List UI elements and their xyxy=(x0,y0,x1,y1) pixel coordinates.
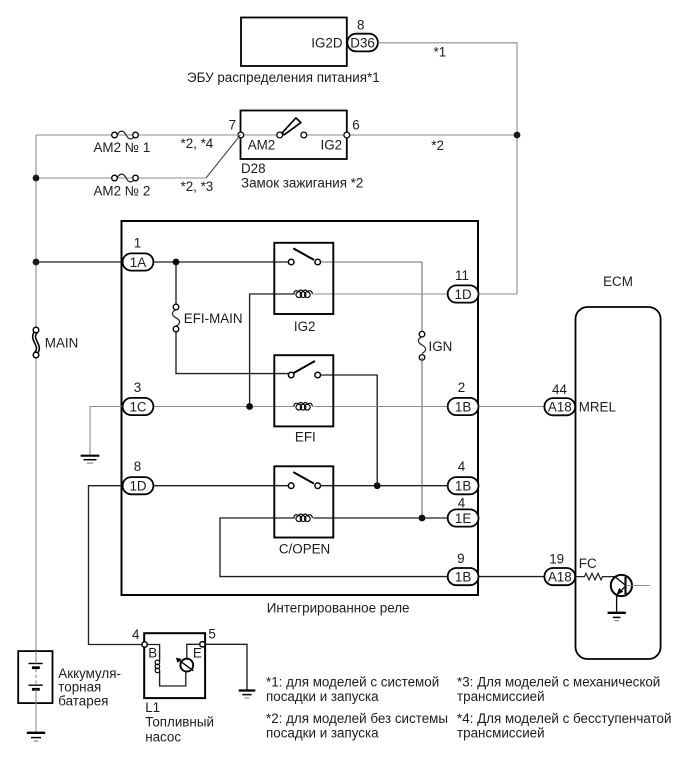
wire C/OPEN coil to 1E xyxy=(313,517,447,519)
svg-text:C/OPEN: C/OPEN xyxy=(279,542,330,557)
wire pin7 to AM2 contact xyxy=(241,134,280,136)
svg-text:*1: для моделей с системой: *1: для моделей с системой xyxy=(266,675,439,690)
relay EFI coil xyxy=(294,403,313,411)
svg-text:ECM: ECM xyxy=(603,274,633,289)
wire pin6 to right column xyxy=(347,134,517,136)
svg-text:MAIN: MAIN xyxy=(45,336,78,351)
relay C/OPEN blade xyxy=(293,472,314,484)
wire IG2 contact out to IGN branch xyxy=(320,262,422,334)
junction AM2 No2 xyxy=(33,175,40,182)
svg-text:1: 1 xyxy=(134,236,141,251)
wire 1D(11) to right column xyxy=(479,293,518,295)
svg-text:*2, *3: *2, *3 xyxy=(181,179,214,194)
svg-text:AM2: AM2 xyxy=(248,137,276,152)
ground (transistor emitter) xyxy=(608,613,626,621)
relay EFI blade xyxy=(293,361,315,373)
svg-text:АМ2 № 2: АМ2 № 2 xyxy=(94,183,151,198)
svg-text:11: 11 xyxy=(455,268,469,283)
svg-text:IG2: IG2 xyxy=(321,137,343,152)
relay C/OPEN box xyxy=(274,466,333,537)
wire AM2 No1 row xyxy=(36,134,241,136)
svg-text:A18: A18 xyxy=(548,569,572,584)
junction 1A / EFI-MAIN xyxy=(173,259,180,266)
svg-text:*2: для моделей без системы: *2: для моделей без системы xyxy=(266,711,448,726)
left main vertical wire xyxy=(35,135,37,330)
svg-text:6: 6 xyxy=(352,118,359,133)
svg-text:1D: 1D xyxy=(455,287,472,302)
relay IG2 coil xyxy=(294,290,313,298)
fuse IGN xyxy=(418,331,425,360)
wire AM2 No2 row xyxy=(36,177,206,179)
svg-text:*2: *2 xyxy=(431,138,444,153)
svg-text:Интегрированное реле: Интегрированное реле xyxy=(267,600,410,615)
wire 1D(8) to fuel pump xyxy=(89,486,143,645)
resistor FC xyxy=(576,573,615,579)
terminal pin 5 (E) xyxy=(200,642,205,647)
svg-text:IG2: IG2 xyxy=(294,319,316,334)
wire 1D(8) row to C/OPEN contact xyxy=(154,485,289,487)
wire EFI coil to 1B(2) xyxy=(313,406,447,408)
svg-text:1A: 1A xyxy=(130,255,146,270)
svg-text:E: E xyxy=(193,645,202,660)
connector D36 xyxy=(347,34,378,52)
ECM box xyxy=(576,307,661,659)
svg-text:АМ2 № 1: АМ2 № 1 xyxy=(94,140,151,155)
svg-text:*4: Для моделей с бесступенчат: *4: Для моделей с бесступенчатой xyxy=(457,711,671,726)
fuse AM2 No 2 xyxy=(112,174,139,182)
svg-text:D36: D36 xyxy=(350,35,375,50)
wire 1A row xyxy=(36,261,289,263)
svg-text:B: B xyxy=(148,645,157,660)
svg-text:19: 19 xyxy=(549,552,564,567)
integrated relay outer box xyxy=(122,221,479,595)
svg-text:батарея: батарея xyxy=(58,693,108,708)
svg-text:1C: 1C xyxy=(129,399,146,414)
wire 1B(9) to ECM FC xyxy=(479,576,545,578)
svg-text:8: 8 xyxy=(134,459,141,474)
wire EFI switch output down xyxy=(320,375,377,486)
ECU power distribution module box xyxy=(241,18,347,67)
pump coil L xyxy=(155,660,160,673)
relay EFI box xyxy=(274,355,333,426)
svg-text:4: 4 xyxy=(458,496,466,511)
svg-text:1B: 1B xyxy=(455,569,471,584)
svg-text:*1: *1 xyxy=(434,45,447,60)
terminal pin 6 xyxy=(344,132,350,138)
ignition switch box D28 xyxy=(241,111,347,160)
svg-text:3: 3 xyxy=(134,380,141,395)
svg-text:2: 2 xyxy=(458,380,465,395)
wire pin 5 to ground xyxy=(205,644,247,690)
svg-text:FC: FC xyxy=(579,556,597,571)
junction EFI output on 1B(4) row xyxy=(374,482,381,489)
pump motor symbol xyxy=(176,658,193,672)
svg-text:посадки и запуска: посадки и запуска xyxy=(266,689,379,704)
wire IG2 coil to 1D(11) xyxy=(313,293,447,295)
svg-text:EFI-MAIN: EFI-MAIN xyxy=(184,311,243,326)
svg-text:*3: Для моделей с механической: *3: Для моделей с механической xyxy=(457,675,660,690)
wire C/OPEN coil left loop to 1B(9) xyxy=(220,518,448,577)
wire D36 to right column xyxy=(378,43,517,294)
switch lever xyxy=(282,118,301,135)
wire IGN branch down to 1E row xyxy=(421,357,423,518)
svg-text:D28: D28 xyxy=(241,161,266,176)
contact IG2 xyxy=(301,132,307,138)
fusible link MAIN xyxy=(33,327,39,358)
svg-text:посадки и запуска: посадки и запуска xyxy=(266,725,379,740)
svg-text:*2, *4: *2, *4 xyxy=(181,136,214,151)
svg-text:1B: 1B xyxy=(455,479,471,494)
svg-text:5: 5 xyxy=(208,627,215,642)
fuel pump box xyxy=(144,633,205,698)
svg-text:IGN: IGN xyxy=(429,339,453,354)
junction on 1C row xyxy=(246,403,253,410)
battery box xyxy=(18,651,52,703)
transistor Q (FC driver) xyxy=(611,575,650,612)
relay C/OPEN coil xyxy=(294,514,313,522)
relay EFI contacts xyxy=(288,372,294,378)
junction IGN / 1E row xyxy=(419,515,426,522)
wire diagonal to pin 7 xyxy=(206,136,240,179)
svg-text:ЭБУ распределения питания*1: ЭБУ распределения питания*1 xyxy=(187,70,380,85)
svg-text:EFI: EFI xyxy=(295,430,316,445)
svg-text:Замок зажигания *2: Замок зажигания *2 xyxy=(241,176,363,191)
svg-text:трансмиссией: трансмиссией xyxy=(457,689,545,704)
svg-text:8: 8 xyxy=(357,17,364,32)
wire EFI-MAIN branch xyxy=(175,262,177,307)
wire C/OPEN contact to 1B(4) xyxy=(320,485,447,487)
svg-text:трансмиссией: трансмиссией xyxy=(457,725,545,740)
pump internal wires xyxy=(145,645,160,662)
svg-text:1D: 1D xyxy=(129,479,146,494)
wire 1C row xyxy=(154,406,295,408)
terminal pin 4 (B) xyxy=(142,642,147,647)
svg-text:Топливный: Топливный xyxy=(145,714,214,729)
svg-text:1E: 1E xyxy=(455,511,471,526)
svg-text:1B: 1B xyxy=(455,399,471,414)
ground (fuel pump) xyxy=(239,691,256,699)
terminal pin 7 xyxy=(238,132,244,138)
ground (1C) xyxy=(81,456,100,463)
battery cell symbols xyxy=(29,651,43,732)
svg-text:9: 9 xyxy=(457,551,464,566)
svg-text:IG2D: IG2D xyxy=(311,35,343,50)
wire 1C ground stub xyxy=(90,407,123,456)
relay IG2 box xyxy=(274,243,333,314)
fuse AM2 No 1 xyxy=(112,131,139,139)
relay C/OPEN contacts xyxy=(288,483,294,489)
svg-text:A18: A18 xyxy=(548,400,572,415)
junction right column / pin6 wire xyxy=(514,132,521,139)
ground (battery) xyxy=(27,733,45,741)
svg-text:4: 4 xyxy=(132,627,140,642)
junction 1A row xyxy=(33,259,40,266)
relay IG2 contacts xyxy=(288,259,294,265)
wire 1B(2) to ECM MREL xyxy=(479,406,545,408)
fuse EFI-MAIN xyxy=(172,304,179,332)
svg-text:44: 44 xyxy=(552,382,567,397)
relay IG2 blade xyxy=(293,248,314,260)
contact AM2 xyxy=(277,132,283,138)
svg-text:MREL: MREL xyxy=(579,400,616,415)
svg-text:7: 7 xyxy=(229,118,236,133)
svg-text:4: 4 xyxy=(458,459,466,474)
wire IG2 coil left branch xyxy=(250,294,295,407)
svg-text:L1: L1 xyxy=(145,700,160,715)
svg-text:насос: насос xyxy=(145,730,181,745)
wire IG2 contact to pin6 xyxy=(304,134,347,136)
